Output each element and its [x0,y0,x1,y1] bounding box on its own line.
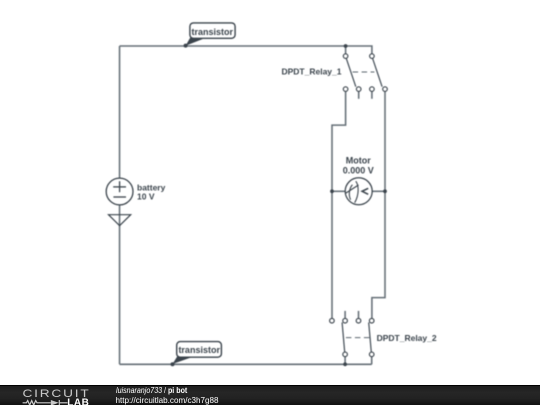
svg-text:transistor: transistor [192,27,234,37]
svg-text:transistor: transistor [178,345,220,355]
svg-text:0.000 V: 0.000 V [343,166,374,176]
svg-text:DPDT_Relay_1: DPDT_Relay_1 [281,67,341,77]
svg-text:Motor: Motor [346,156,371,166]
svg-text:LAB: LAB [67,397,89,405]
svg-text:DPDT_Relay_2: DPDT_Relay_2 [377,333,437,343]
svg-text:10 V: 10 V [137,192,155,202]
